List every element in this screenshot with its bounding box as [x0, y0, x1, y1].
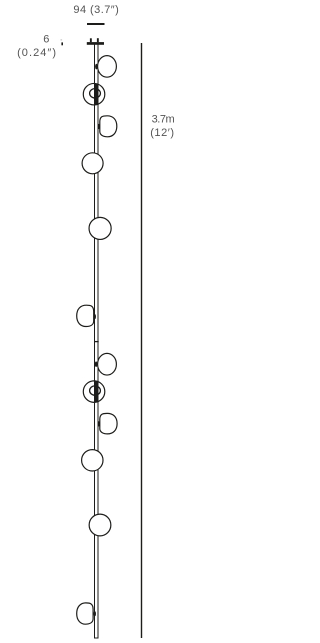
globe G6	[77, 305, 94, 326]
globe G9 joint	[98, 421, 100, 426]
globe G8 outer	[83, 381, 105, 403]
canopy tick left	[90, 38, 92, 42]
globe G1	[98, 56, 117, 78]
globe G6 joint	[94, 314, 96, 319]
canopy mount bar	[87, 42, 104, 45]
globe G3	[100, 116, 117, 137]
globe G12 joint	[94, 611, 96, 616]
globe G11	[89, 514, 111, 536]
stem joint rung	[94, 341, 99, 343]
globe G2 inner	[90, 89, 101, 98]
vertical dimension line 3.7m	[141, 43, 143, 638]
svg-text:94 (3.7″): 94 (3.7″)	[73, 4, 119, 16]
globe G5	[89, 217, 111, 239]
globe G8 inner	[90, 386, 101, 395]
canopy tick right	[97, 38, 99, 42]
svg-text:6: 6	[43, 33, 49, 45]
globe G12	[77, 603, 93, 624]
globe G7 joint	[95, 361, 98, 367]
globe G1 joint	[95, 64, 98, 70]
globe G10	[82, 450, 103, 471]
globe G3 joint	[98, 124, 100, 129]
tick mark for 6mm rod	[61, 39, 64, 45]
dimension line for 94 width	[87, 23, 105, 25]
globe G8 rod	[94, 381, 98, 402]
globe G9	[100, 413, 117, 434]
globe G4	[82, 153, 103, 174]
svg-text:(0.24″): (0.24″)	[17, 47, 57, 59]
svg-text:3.7m: 3.7m	[152, 113, 175, 125]
svg-text:(12′): (12′)	[150, 127, 174, 139]
globe G7	[98, 353, 117, 375]
globe G2 rod	[94, 84, 98, 105]
stem rod (double line)	[95, 44, 99, 638]
globe G2 outer	[83, 83, 105, 105]
